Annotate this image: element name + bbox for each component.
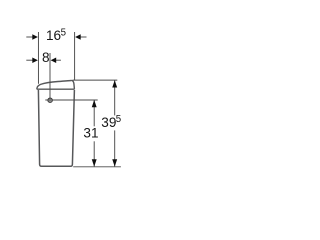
cistern lid (37, 80, 75, 89)
dim 8 left tail (26, 59, 32, 61)
svg-text:8: 8 (42, 50, 50, 65)
extension line inlet vertical (49, 53, 51, 103)
dim 31 bottom arrow (92, 159, 97, 166)
svg-text:5: 5 (116, 114, 121, 125)
dim 39-5 vertical line (114, 80, 116, 115)
extension line inlet horizontal for 31 (45, 99, 97, 101)
dim 16-5 left tail (26, 36, 32, 38)
inlet connection circle (48, 98, 52, 102)
dim 39-5 top arrow (112, 80, 117, 87)
arrowheads (32, 34, 117, 166)
dim 16-5 right tail (81, 36, 87, 38)
dim 16-5 right arrow (75, 34, 81, 40)
svg-text:16: 16 (46, 28, 61, 43)
dim 31 top arrow (92, 100, 97, 107)
svg-text:39: 39 (101, 115, 116, 130)
svg-text:31: 31 (83, 126, 98, 141)
dim 8 right arrow (51, 57, 57, 63)
extension line right edge (74, 32, 76, 80)
svg-text:5: 5 (61, 28, 66, 39)
extension line left edge (37, 32, 39, 84)
dim 8 left arrow (32, 57, 38, 63)
bottom extension line (73, 166, 121, 168)
dim 16-5 left arrow (32, 34, 38, 40)
dim 39-5 bottom arrow (112, 159, 117, 166)
dim 31 vertical line (93, 100, 95, 126)
extension line top for 39-5 (73, 79, 118, 81)
cistern body (38, 90, 74, 166)
dim 8 right tail (56, 59, 61, 61)
